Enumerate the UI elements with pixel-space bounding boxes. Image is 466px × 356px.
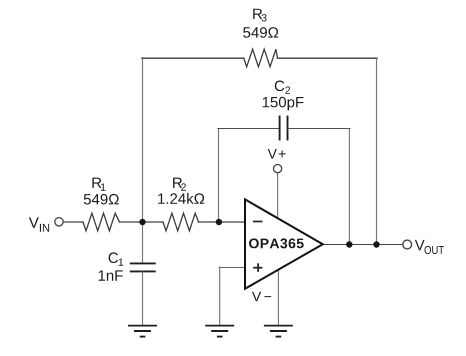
wire: feedback riser at node A (to R3) (142, 59, 144, 222)
resistor R1 (83, 213, 120, 231)
wire: C1 to ground (142, 272, 144, 325)
terminal VOUT (403, 240, 412, 249)
label R3 (253, 9, 266, 22)
wire: op-amp V- to ground (277, 270, 279, 325)
label V- (252, 292, 271, 302)
label R2 (173, 178, 186, 191)
op-amp non-inverting input symbol (253, 263, 262, 272)
wire: node A down to C1 (142, 222, 144, 263)
output node junction dot (C2) (346, 241, 352, 247)
output node junction dot (R3) (373, 241, 379, 247)
label 549 ohm (R3) (243, 27, 278, 38)
label 1nF (99, 270, 123, 280)
capacitor C2 (280, 117, 288, 140)
label C2 (275, 81, 290, 94)
resistor R2 (163, 213, 199, 231)
terminal VIN (55, 218, 63, 226)
label VOUT (415, 240, 444, 254)
label C1 (109, 252, 124, 265)
op-amp label OPA365 (249, 238, 304, 248)
terminal V+ (274, 165, 282, 173)
wire: op-amp non-inverting input to ground (219, 267, 244, 269)
wire: op-amp output to VOUT (323, 244, 402, 246)
wire: VIN to R1 (64, 221, 84, 223)
ground (under C1) (128, 326, 157, 337)
wire: R2 to op-amp inverting input (199, 221, 246, 223)
op-amp U1 OPA365 (245, 199, 323, 288)
resistor R3 (244, 49, 278, 67)
label 549 ohm (R1) (84, 194, 119, 205)
wire: R1 to R2 (node A) (120, 221, 164, 223)
label R1 (92, 178, 105, 191)
label V+ (268, 149, 286, 159)
wire: V+ supply to op-amp (277, 173, 279, 218)
node A junction dot (139, 219, 145, 225)
capacitor C1 (131, 263, 155, 271)
label 150pF (263, 97, 304, 111)
op-amp inverting input symbol (253, 221, 263, 223)
ground (V- supply) (264, 326, 293, 337)
node B junction dot (216, 219, 222, 225)
wire: C2 left riser from node B (218, 129, 220, 223)
label VIN (29, 217, 49, 231)
wire: R3 right to output node (278, 57, 378, 59)
ground (non-inverting input) (205, 326, 234, 337)
label 1.24k ohm (R2) (158, 193, 204, 204)
wire: C2 right to output node (288, 128, 350, 130)
